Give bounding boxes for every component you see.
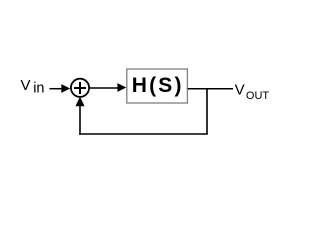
arrowhead into summing junction [61,84,70,93]
svg-text:OUT: OUT [246,90,270,102]
wire summing junction to block [90,87,119,89]
node Vout label [235,81,270,102]
svg-text:V: V [21,77,31,94]
wire Vin to summing junction [50,88,64,90]
svg-text:H(S): H(S) [132,74,184,97]
plus sign [74,82,86,94]
node Vin label [21,77,45,97]
feedback bottom wire [79,133,208,135]
svg-text:in: in [33,81,44,97]
summing junction S1 [71,79,89,97]
feedback wire up to summing junction [79,104,81,135]
feedback tap wire down [206,88,208,134]
svg-text:V: V [235,81,245,98]
arrowhead into summing junction bottom [75,97,84,107]
arrowhead into block [117,83,126,92]
block U1 H(S) [127,69,188,103]
output wire [188,88,233,90]
